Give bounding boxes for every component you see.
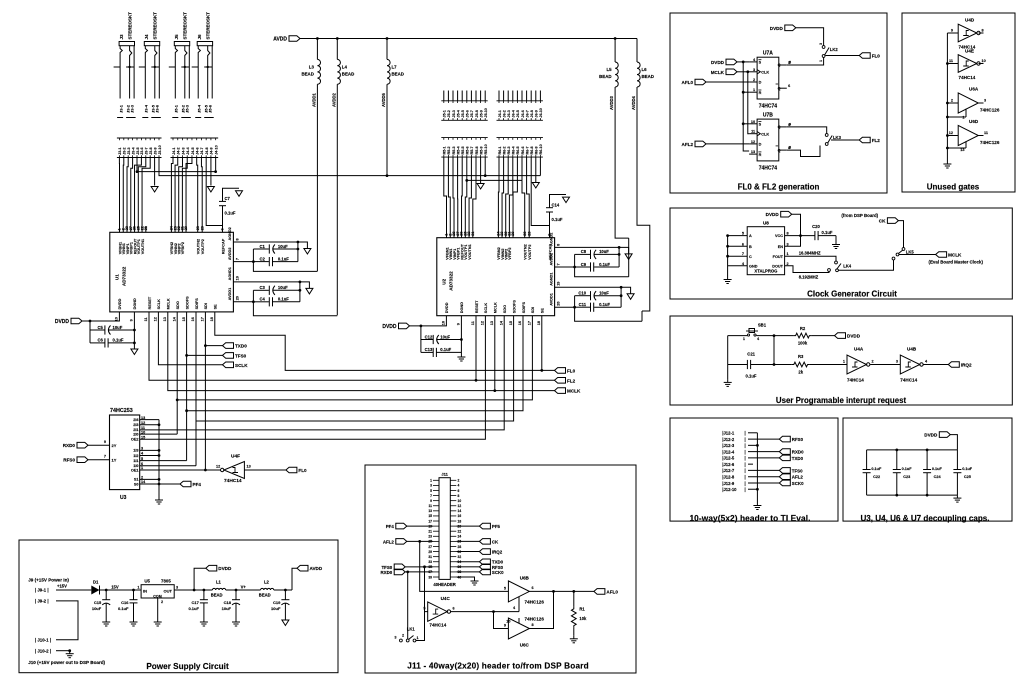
svg-text:23: 23: [196, 226, 200, 230]
svg-text:L7: L7: [392, 64, 398, 69]
svg-text:RXD0: RXD0: [792, 450, 804, 455]
capacitor C23 0.1uF: [893, 450, 912, 495]
svg-text:D: D: [759, 143, 762, 147]
svg-text:DVDD: DVDD: [924, 433, 938, 438]
svg-text:R6-7: R6-7: [525, 146, 529, 154]
connector J5 stereo socket: [169, 12, 190, 99]
svg-text:AGND2: AGND2: [549, 233, 553, 246]
svg-text:SDOFS: SDOFS: [512, 300, 516, 314]
wire U3 pin OE1: [131, 466, 143, 472]
wire U3 1I2 stub: [140, 455, 159, 457]
svg-text:C7: C7: [225, 196, 231, 201]
wire COM to ground: [157, 598, 159, 619]
ground C18: [235, 619, 237, 622]
capacitor C20 0.1uF: [812, 224, 836, 242]
ground C21: [727, 379, 729, 382]
net DVDD tag clockgen: [781, 211, 792, 217]
net RXD0 input tag: [77, 442, 88, 448]
wire AVDD1 from bead L3: [311, 84, 317, 271]
svg-text:U7A: U7A: [763, 51, 773, 57]
svg-text:11: 11: [984, 131, 988, 135]
svg-text:C23: C23: [903, 475, 910, 479]
svg-text:74HC14: 74HC14: [429, 623, 446, 628]
svg-text:DVDD: DVDD: [847, 334, 861, 339]
svg-text:1: 1: [430, 479, 432, 483]
wire U4F input from FL0 tag: [244, 469, 286, 471]
svg-text:13: 13: [751, 150, 755, 154]
net TXD0 output tag: [456, 561, 479, 563]
svg-text:R5-10: R5-10: [484, 144, 488, 154]
svg-text:6: 6: [742, 242, 744, 246]
ground U3: [158, 497, 160, 500]
svg-text:DVDD: DVDD: [766, 212, 780, 217]
wire U4B to IRQ2: [924, 364, 949, 366]
svg-text:3: 3: [819, 43, 823, 45]
switch LK1: [394, 627, 418, 642]
wire DVDD to S pin: [737, 61, 749, 63]
svg-text:AVDD4: AVDD4: [631, 95, 636, 110]
svg-text:20: 20: [184, 226, 188, 230]
wire AVDD2 pin loop: [233, 261, 253, 263]
svg-text:J10 (+15V power out to DSP Boa: J10 (+15V power out to DSP Board): [28, 660, 105, 665]
wire AVDD branch: [292, 568, 297, 590]
connector J9 +15V Power In: [28, 578, 69, 604]
svg-text:J3-1: J3-1: [118, 104, 123, 113]
svg-text:J6-4: J6-4: [512, 109, 516, 117]
wire SDOFS vertical to U3: [186, 411, 188, 461]
svg-text:19: 19: [235, 276, 239, 280]
ground U8: [727, 277, 729, 280]
svg-text:10uF: 10uF: [278, 244, 288, 249]
wire U3 OE2 row: [140, 438, 159, 440]
wire AVDD1 pin loop: [233, 301, 253, 303]
svg-text:1: 1: [753, 88, 755, 92]
svg-text:C4: C4: [260, 297, 266, 302]
svg-text:J3-3: J3-3: [127, 147, 131, 154]
svg-text:VOUTN2: VOUTN2: [524, 244, 528, 259]
svg-text:U6B: U6B: [520, 576, 530, 581]
svg-text:AVDD: AVDD: [273, 37, 287, 43]
svg-text:AFL2: AFL2: [792, 475, 804, 480]
svg-text:BEAD: BEAD: [301, 71, 313, 76]
svg-text:STEREOSKT: STEREOSKT: [183, 12, 188, 40]
svg-text:7: 7: [742, 252, 744, 256]
connector J11 40HEADER: [428, 472, 461, 588]
wire AGND1 pin to ground: [233, 282, 309, 289]
svg-text:11: 11: [949, 59, 953, 63]
wire bus SDIFS to U2 SDOFS: [196, 312, 514, 421]
svg-text:GND: GND: [749, 264, 758, 268]
svg-text:1: 1: [417, 636, 419, 640]
svg-text:SDIFS: SDIFS: [195, 298, 199, 310]
wire LK2 to FL0: [826, 55, 860, 57]
svg-text:C1: C1: [260, 244, 266, 249]
wire RFS0 to 1Y: [88, 459, 110, 461]
svg-text:0.1uF: 0.1uF: [118, 606, 129, 611]
svg-text:RXD0: RXD0: [63, 443, 76, 448]
svg-text:VCC: VCC: [775, 234, 783, 238]
svg-text:16: 16: [518, 321, 522, 325]
svg-text:6: 6: [532, 586, 534, 590]
wire DVDD to U2 pin 10: [410, 316, 447, 326]
wire MCLK to CLK pin: [737, 71, 749, 73]
svg-text:S: S: [759, 123, 762, 127]
svg-text:3: 3: [176, 586, 178, 590]
node AVDD5 junction: [386, 174, 389, 177]
svg-text:5: 5: [504, 587, 506, 591]
inductor L5 ferrite bead: [599, 39, 618, 88]
ground J10-2: [69, 651, 71, 654]
svg-text:|: |: [745, 468, 746, 473]
net TFS0 tag: [223, 353, 234, 359]
wire U2 MCLK: [494, 316, 496, 391]
switch LK2: [819, 43, 838, 62]
wire U2 SE: [541, 316, 543, 371]
svg-text:J5-1: J5-1: [174, 104, 179, 113]
svg-text:1: 1: [137, 586, 139, 590]
svg-text:J3-4: J3-4: [131, 146, 135, 154]
capacitor C1 10uF: [253, 242, 299, 254]
svg-text:RXD0: RXD0: [380, 570, 392, 575]
wire OE1 to U4F: [205, 469, 220, 471]
ground AGND arrow U1 DGND: [131, 349, 138, 355]
capacitor C7 0.1uF: [219, 188, 239, 232]
ground AGND arrow under J5 stack: [477, 184, 484, 190]
net DVDD input tag U2: [399, 323, 410, 329]
net MCLK tag U7A: [726, 69, 737, 75]
op-amp codec U2 AD73322: [437, 231, 561, 326]
node C16: [132, 589, 135, 592]
connector stack J5 lower row: [441, 138, 488, 158]
wire J12 odd pins to ground bus: [748, 433, 759, 503]
wire regulator out: [174, 589, 212, 591]
svg-text:2I4: 2I4: [133, 418, 139, 422]
inductor L1 bead: [211, 580, 226, 598]
wire MCLK clock bus: [748, 72, 749, 134]
svg-text:9: 9: [951, 29, 953, 33]
svg-text:BEAD: BEAD: [642, 74, 654, 79]
svg-text:U4B: U4B: [907, 347, 917, 352]
wire U3 2I4 stub: [140, 419, 159, 421]
net FL0 tag: [555, 368, 566, 374]
wire AFL2 net to U6B input: [420, 541, 509, 591]
diode D1: [91, 580, 99, 595]
svg-text:2I0: 2I0: [133, 432, 138, 436]
inverter U4B 74HC14: [896, 347, 928, 383]
svg-text:|: |: [745, 431, 746, 436]
wire CK to LK5: [898, 221, 903, 248]
svg-text:COM: COM: [153, 594, 161, 598]
svg-text:21: 21: [428, 530, 432, 534]
svg-text:AVDD1: AVDD1: [549, 293, 553, 306]
wire AGND1 pin to ground: [555, 287, 631, 294]
svg-text:0.1uF: 0.1uF: [599, 302, 610, 307]
oscillator U8 XTALPROG: [726, 221, 788, 275]
svg-text:(Eval Board Master Clock): (Eval Board Master Clock): [929, 260, 984, 265]
svg-text:5: 5: [742, 232, 744, 236]
node AVDD-L7: [386, 37, 389, 40]
svg-text:R: R: [759, 91, 762, 95]
node brail C23: [895, 494, 898, 497]
svg-text:74HC126: 74HC126: [525, 600, 545, 605]
svg-text:U2: U2: [441, 278, 446, 284]
net SCK0 tag: [779, 480, 790, 486]
svg-text:3: 3: [896, 360, 898, 364]
wire DVDD branch: [194, 568, 206, 590]
capacitor C14 0.1uF: [546, 195, 566, 238]
svg-text:1I3: 1I3: [133, 449, 138, 453]
svg-text:11: 11: [751, 130, 755, 134]
svg-text:0.1uF: 0.1uF: [932, 467, 943, 471]
ground J11: [474, 578, 476, 581]
wire U3 pin 2I0: [133, 430, 145, 436]
svg-text:2: 2: [161, 600, 163, 604]
svg-text:10: 10: [458, 499, 462, 503]
svg-text:12: 12: [949, 131, 953, 135]
connector stack J3 pins: [117, 138, 162, 158]
connector J12-2 pin: [722, 437, 745, 442]
svg-text:DVDD: DVDD: [382, 324, 397, 330]
net CK input tag: [841, 213, 898, 224]
svg-text:13: 13: [247, 465, 251, 469]
svg-text:C3: C3: [260, 285, 266, 290]
svg-text:STEREOSKT: STEREOSKT: [153, 12, 158, 40]
svg-text:R6-8: R6-8: [530, 146, 534, 154]
svg-text:| J10-1 |: | J10-1 |: [35, 638, 51, 643]
svg-text:AVDD5: AVDD5: [381, 92, 386, 107]
wire U3 collector vertical: [158, 420, 160, 497]
svg-text:AFL2: AFL2: [383, 539, 395, 544]
svg-text:J6-8: J6-8: [530, 110, 534, 117]
node SB1-R2: [773, 334, 776, 337]
svg-text:J3-6: J3-6: [140, 147, 144, 154]
svg-text:FL2: FL2: [872, 138, 881, 143]
svg-text:9: 9: [104, 440, 106, 444]
box User Programable interupt request: [670, 316, 1012, 405]
ground AGND arrow at C7: [236, 191, 243, 197]
resistor R2 100k: [774, 326, 835, 346]
capacitor C6 0.1uF: [90, 330, 134, 348]
svg-text:R3: R3: [798, 354, 804, 359]
svg-text:32: 32: [458, 555, 462, 559]
svg-text:J6-7: J6-7: [525, 110, 529, 117]
wire U3 OE1 row: [140, 469, 206, 471]
wire U3 pin 2I3: [133, 421, 145, 427]
box Unused gates: [902, 13, 1015, 192]
svg-text:AVDD: AVDD: [310, 566, 323, 571]
wire AVDD rail: [300, 38, 637, 40]
svg-text:9: 9: [504, 624, 506, 628]
svg-text:IN: IN: [143, 588, 147, 593]
svg-text:R5-4: R5-4: [456, 145, 460, 154]
svg-text:BEAD: BEAD: [211, 593, 223, 598]
wire LK1 to U4C leg: [416, 612, 425, 641]
wire J12-2 to RFS0: [748, 438, 779, 440]
node AVDD-L4: [336, 37, 339, 40]
svg-text:1Y: 1Y: [112, 458, 117, 463]
svg-text:C9: C9: [581, 262, 587, 267]
svg-text:J5-5: J5-5: [461, 110, 465, 117]
svg-text:DVDD: DVDD: [218, 566, 232, 571]
svg-text:Q: Q: [778, 63, 781, 67]
svg-text:7: 7: [557, 263, 561, 265]
wire bus U3-2I1 to U2 SDO: [159, 316, 504, 430]
svg-text:S0: S0: [134, 482, 139, 486]
capacitor C22 0.1uF: [863, 450, 882, 495]
svg-text:7: 7: [104, 455, 106, 459]
svg-text:| J10-2 |: | J10-2 |: [35, 648, 51, 653]
wire AVDD4 from bead L6: [631, 87, 650, 311]
wire U2 DGND pin 9: [460, 316, 462, 354]
wire SB1 left leg: [727, 336, 729, 365]
svg-text:FL0: FL0: [567, 368, 576, 373]
ground unused gates: [946, 161, 948, 164]
wire SDOFS to TFS0: [186, 312, 188, 356]
svg-text:R5-9: R5-9: [479, 146, 483, 154]
svg-text:10: 10: [982, 59, 986, 63]
svg-text:R6-2: R6-2: [502, 146, 506, 154]
wire LK5 to MCLK tag: [899, 254, 936, 256]
svg-text:U5: U5: [144, 579, 150, 584]
svg-text:6: 6: [458, 489, 460, 493]
svg-text:10uF: 10uF: [92, 606, 102, 611]
node U2 MCLK on line: [493, 389, 496, 392]
svg-text:J3-4: J3-4: [144, 104, 149, 113]
net RXD0 input tag J11: [394, 569, 405, 575]
svg-text:40HEADER: 40HEADER: [433, 582, 455, 587]
node U2 SE on FL0: [540, 369, 543, 372]
svg-text:SB1: SB1: [758, 323, 767, 328]
svg-text:|J12-5: |J12-5: [722, 456, 735, 461]
svg-text:J3-8: J3-8: [149, 147, 153, 154]
svg-text:SE: SE: [214, 304, 218, 310]
svg-text:3: 3: [984, 99, 986, 103]
svg-text:J4-3: J4-3: [181, 147, 185, 154]
wire J12-7 to TFS0: [748, 469, 779, 471]
svg-text:SCLK: SCLK: [157, 299, 161, 310]
wire SE to FL0 line: [215, 312, 555, 371]
svg-text:74HC14: 74HC14: [224, 478, 242, 484]
node rail C23: [895, 449, 898, 452]
capacitor C13 0.1uF: [421, 340, 462, 358]
svg-text:1: 1: [787, 252, 789, 256]
ground C17: [203, 619, 205, 622]
svg-text:J6-9: J6-9: [535, 110, 539, 117]
wire J12-4 to RXD0: [748, 451, 779, 453]
svg-text:R5-3: R5-3: [452, 146, 456, 154]
net FL2 tag: [555, 378, 566, 384]
svg-text:24: 24: [458, 535, 462, 539]
svg-text:L2: L2: [264, 580, 270, 585]
wire C21 to ground: [727, 365, 729, 380]
svg-text:DVDD: DVDD: [118, 298, 122, 309]
svg-text:10uF: 10uF: [599, 249, 609, 254]
svg-text:J4-4: J4-4: [186, 146, 190, 154]
svg-text:D: D: [759, 81, 762, 85]
svg-text:20: 20: [557, 301, 561, 305]
node C19: [284, 589, 287, 592]
svg-text:0.1uF: 0.1uF: [552, 217, 563, 222]
wire U2 RESET: [475, 316, 477, 381]
ground AGND arrow: [627, 294, 634, 300]
svg-text:J3-9: J3-9: [153, 147, 157, 154]
svg-text:D1: D1: [93, 580, 99, 585]
wire bus U3-OE2 to U2 SCLK: [159, 316, 485, 440]
svg-text:C6: C6: [97, 338, 103, 343]
ground C16: [133, 619, 135, 622]
wire U3 1I1 row: [140, 460, 187, 462]
wire AGND2 pin to ground: [233, 242, 307, 249]
svg-text:DGND: DGND: [133, 298, 137, 309]
capacitor C12 10uF: [421, 326, 462, 344]
svg-text:AGND1: AGND1: [549, 273, 553, 286]
svg-text:1I2: 1I2: [133, 454, 138, 458]
svg-text:OUT: OUT: [164, 588, 173, 593]
svg-text:FL0 & FL2 generation: FL0 & FL2 generation: [738, 183, 820, 192]
svg-text:J4-1: J4-1: [172, 147, 176, 154]
svg-text:2: 2: [872, 360, 874, 364]
svg-text:15V: 15V: [111, 584, 119, 589]
svg-text:+15V: +15V: [57, 584, 67, 589]
svg-text:REFCAP: REFCAP: [221, 238, 225, 254]
node C17: [203, 589, 206, 592]
wire U8 address bus to ground: [727, 236, 729, 277]
ground R1: [573, 636, 575, 639]
svg-text:VOUTN2: VOUTN2: [197, 239, 201, 254]
svg-text:0.1uF: 0.1uF: [188, 606, 199, 611]
svg-text:J9 (+15V Power In): J9 (+15V Power In): [28, 578, 69, 583]
svg-text:|J12-2: |J12-2: [722, 437, 735, 442]
svg-text:7: 7: [235, 258, 239, 260]
svg-text:9: 9: [430, 499, 432, 503]
svg-text:0.1uF: 0.1uF: [746, 374, 757, 379]
svg-text:J6-6: J6-6: [521, 110, 525, 117]
svg-text:10: 10: [751, 120, 755, 124]
box J11 40way header: [365, 465, 636, 673]
net AFL0 input tag: [695, 79, 706, 85]
capacitor C24 0.1uF: [923, 450, 942, 495]
svg-text:| J9-2 |: | J9-2 |: [35, 599, 49, 604]
connector J12-3 pin: [722, 443, 745, 448]
regulator U5 7805: [137, 579, 178, 605]
svg-text:J5-8: J5-8: [475, 110, 479, 117]
svg-text:R6-1: R6-1: [498, 146, 502, 154]
capacitor C21 0.1uF: [728, 352, 774, 379]
svg-text:23: 23: [523, 231, 527, 235]
svg-text:AVDD2: AVDD2: [228, 248, 232, 261]
svg-text:J6-2: J6-2: [502, 110, 506, 117]
wire AVDD2 pin loop: [555, 266, 575, 268]
net AFL0 output tag: [594, 589, 605, 595]
svg-text:2: 2: [402, 634, 404, 638]
net CK output tag: [456, 540, 479, 542]
node J4 stack: [214, 170, 217, 173]
wire VCC to C20: [785, 235, 815, 237]
switch LK5: [892, 248, 914, 260]
svg-text:R6-10: R6-10: [539, 144, 543, 154]
svg-text:21: 21: [144, 226, 148, 230]
svg-text:RESET: RESET: [148, 296, 152, 309]
svg-text:MCLK: MCLK: [167, 298, 171, 309]
svg-text:R5-2: R5-2: [447, 146, 451, 154]
svg-text:|J12-4: |J12-4: [722, 449, 735, 454]
svg-text:8: 8: [557, 244, 561, 246]
wire U3 2I1 row: [140, 429, 159, 431]
ground AGND arrow under J3 stack: [151, 187, 158, 193]
svg-text:AFL0: AFL0: [606, 589, 618, 594]
svg-text:User Programable interupt requ: User Programable interupt request: [776, 396, 907, 405]
wire SCLK to tag: [158, 312, 222, 365]
